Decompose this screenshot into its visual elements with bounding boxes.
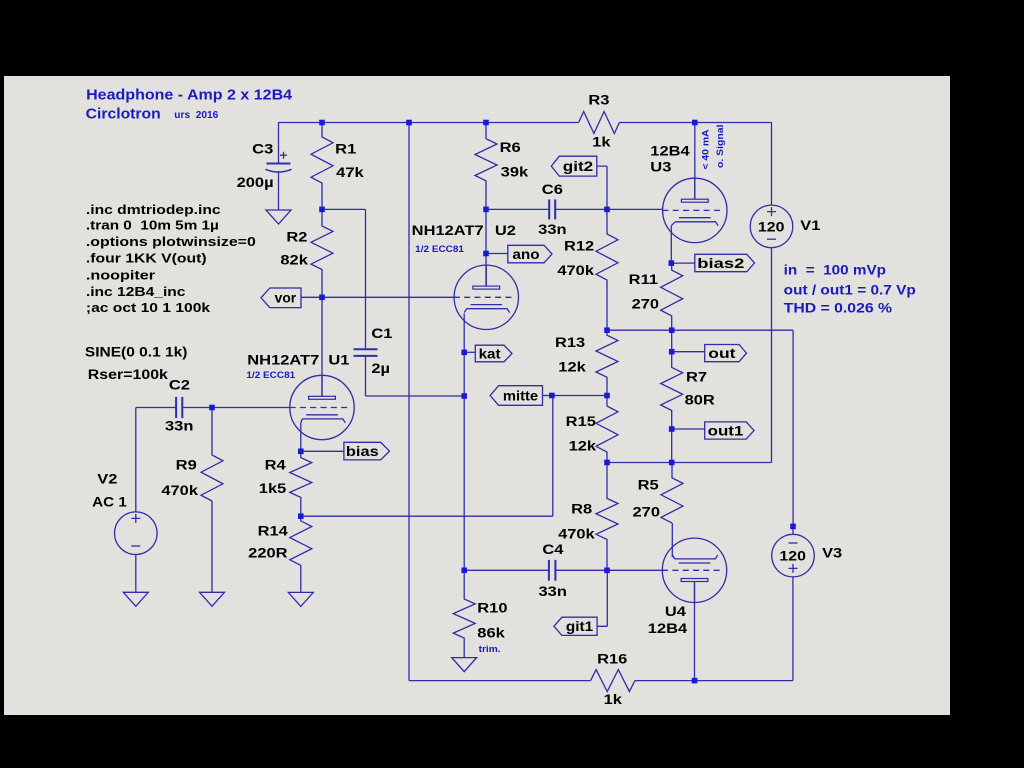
svg-text:V2: V2 bbox=[97, 472, 117, 487]
node V3 top bbox=[790, 524, 796, 530]
resistor R3 1k bbox=[579, 112, 620, 134]
svg-text:470k: 470k bbox=[558, 527, 595, 542]
svg-text:trim.: trim. bbox=[479, 644, 501, 655]
svg-text:1k: 1k bbox=[604, 692, 623, 707]
svg-text:NH12AT7: NH12AT7 bbox=[412, 223, 484, 238]
svg-text:out1: out1 bbox=[708, 423, 744, 438]
resistor R11 270 bbox=[661, 263, 683, 330]
svg-text:R5: R5 bbox=[638, 477, 660, 492]
ground under C3 bbox=[266, 210, 291, 224]
wire mitte link R4/R14 node bbox=[301, 396, 553, 517]
wire out flag stub bbox=[672, 351, 705, 353]
wire R9 bottom lead bbox=[211, 501, 213, 592]
wire U4 plate lead bottom bbox=[694, 582, 696, 681]
resistor R4 1k5 bbox=[290, 451, 312, 516]
node out bbox=[669, 349, 675, 355]
net flag bias2 bbox=[695, 254, 755, 271]
node U1 cathode/bias bbox=[298, 449, 304, 455]
node R5 top bbox=[669, 460, 675, 466]
wire C4 right lead bbox=[555, 569, 607, 571]
wire top rail left segment bbox=[279, 122, 579, 124]
node R6 top bbox=[483, 120, 489, 126]
net flag git2 bbox=[551, 156, 597, 176]
wire V2 bottom lead bbox=[135, 555, 137, 593]
svg-text:Circlotron: Circlotron bbox=[86, 106, 161, 122]
ground under V2 bbox=[123, 592, 148, 606]
node R2/vor/U1 plate/U2 grid bbox=[319, 295, 325, 301]
wire V3 top lead bbox=[792, 526, 794, 534]
svg-text:< 40 mA: < 40 mA bbox=[700, 129, 711, 169]
triode U4 12B4 (mirrored) bbox=[662, 538, 727, 602]
resistor R2 82k bbox=[311, 209, 333, 297]
wire U1 grid lead bbox=[212, 407, 290, 409]
svg-text:R11: R11 bbox=[629, 272, 659, 287]
node ano bbox=[483, 251, 489, 257]
svg-text:C3: C3 bbox=[252, 142, 274, 157]
svg-text:270: 270 bbox=[633, 505, 661, 520]
svg-text:U1: U1 bbox=[328, 352, 350, 367]
svg-text:C1: C1 bbox=[371, 326, 393, 341]
svg-text:C4: C4 bbox=[542, 542, 564, 557]
resistor R5 270 bbox=[661, 463, 683, 524]
triode U2 NH12AT7 bbox=[454, 265, 519, 329]
svg-text:in = 100 mVp: in = 100 mVp bbox=[784, 262, 886, 277]
wire top rail right segment to V1 bbox=[619, 123, 771, 206]
node R1/R2/C1 bbox=[319, 207, 325, 213]
svg-text:33n: 33n bbox=[539, 584, 567, 599]
svg-text:THD = 0.026 %: THD = 0.026 % bbox=[784, 301, 892, 316]
capacitor C4 33n bbox=[549, 560, 556, 581]
svg-text:R4: R4 bbox=[265, 458, 287, 473]
wire U3 grid lead bbox=[607, 208, 662, 210]
voltage source V3 120V (flipped) bbox=[772, 534, 815, 577]
svg-text:kat: kat bbox=[479, 346, 502, 361]
wire bias2 flag stub bbox=[671, 262, 695, 264]
wire kat vertical (U2 cathode to C4) bbox=[463, 314, 465, 571]
svg-text:1k5: 1k5 bbox=[259, 481, 287, 496]
wire C4 left lead bbox=[464, 569, 549, 571]
svg-text:.four 1KK V(out): .four 1KK V(out) bbox=[86, 251, 207, 266]
svg-text:o. Signal: o. Signal bbox=[715, 125, 726, 169]
svg-text:1/2 ECC81: 1/2 ECC81 bbox=[415, 244, 465, 255]
svg-text:C6: C6 bbox=[542, 182, 564, 197]
svg-text:V3: V3 bbox=[822, 546, 843, 561]
svg-text:R3: R3 bbox=[588, 93, 610, 108]
wire R5 to U4 cathode bbox=[671, 523, 673, 557]
node R11 bottom bbox=[669, 327, 675, 333]
svg-text:R10: R10 bbox=[477, 601, 507, 616]
svg-text:;ac oct 10 1 100k: ;ac oct 10 1 100k bbox=[86, 300, 211, 315]
svg-text:12B4: 12B4 bbox=[648, 621, 688, 636]
svg-text:2µ: 2µ bbox=[371, 361, 390, 376]
svg-text:.inc 12B4_inc: .inc 12B4_inc bbox=[86, 284, 186, 299]
svg-text:R9: R9 bbox=[176, 458, 197, 473]
svg-text:470k: 470k bbox=[557, 263, 594, 278]
svg-text:Rser=100k: Rser=100k bbox=[88, 367, 169, 382]
svg-text:R7: R7 bbox=[686, 370, 707, 385]
svg-text:out / out1 = 0.7 Vp: out / out1 = 0.7 Vp bbox=[784, 283, 916, 298]
svg-text:U4: U4 bbox=[665, 604, 687, 619]
svg-text:R13: R13 bbox=[555, 335, 586, 350]
node R4/R14/link bbox=[298, 513, 304, 519]
ground under R14 bbox=[288, 592, 313, 606]
wire bottom rail right segment to V3 bottom bbox=[635, 577, 793, 681]
svg-text:.options plotwinsize=0: .options plotwinsize=0 bbox=[86, 234, 256, 249]
wire C6 right lead bbox=[555, 208, 607, 210]
resistor R8 470k bbox=[596, 463, 618, 571]
resistor R15 12k bbox=[596, 396, 618, 463]
net flag mitte bbox=[490, 386, 542, 406]
svg-text:U3: U3 bbox=[650, 159, 672, 174]
svg-text:12B4: 12B4 bbox=[650, 143, 690, 158]
triode U3 12B4 bbox=[662, 178, 727, 242]
wire long vertical rail bbox=[408, 123, 410, 681]
svg-text:R16: R16 bbox=[597, 652, 628, 667]
svg-text:120: 120 bbox=[779, 549, 806, 564]
wire row R12/R13 to V3 top bbox=[607, 330, 793, 526]
spice directives block bbox=[86, 202, 256, 315]
svg-text:R2: R2 bbox=[286, 230, 307, 245]
svg-text:git1: git1 bbox=[566, 619, 594, 634]
wire U1 cathode lead bbox=[300, 423, 302, 452]
wire U4 grid lead bbox=[607, 569, 662, 571]
wire U2 plate lead bbox=[485, 209, 487, 285]
net flag kat bbox=[475, 345, 512, 362]
svg-text:bias: bias bbox=[346, 444, 379, 459]
wire R1-R2 junction to C1 top bbox=[322, 209, 366, 348]
svg-text:200µ: 200µ bbox=[237, 175, 274, 190]
wire vor flag to node bbox=[301, 296, 322, 298]
svg-text:1k: 1k bbox=[592, 135, 611, 150]
svg-text:R14: R14 bbox=[258, 523, 289, 538]
wire kat flag stub bbox=[464, 351, 475, 353]
wire out row to V1 bottom bbox=[607, 248, 772, 463]
wire node vor to U2 grid bbox=[322, 296, 454, 298]
wire C2 left lead and V2 top bbox=[136, 408, 176, 512]
capacitor C3 200u polarized bbox=[266, 152, 292, 210]
svg-text:R6: R6 bbox=[500, 140, 522, 155]
svg-text:V1: V1 bbox=[800, 218, 821, 233]
net flag out1 bbox=[705, 422, 754, 439]
voltage source V1 120V bbox=[750, 205, 793, 248]
resistor R1 47k bbox=[311, 123, 333, 210]
wire out1 flag stub bbox=[672, 428, 705, 430]
node kat/C4/R10 bbox=[461, 568, 467, 574]
svg-text:33n: 33n bbox=[165, 419, 193, 434]
wire git2 flag to node bbox=[597, 166, 607, 209]
node C6/git2/R12/U3 grid bbox=[604, 207, 610, 213]
svg-text:Headphone - Amp 2 x 12B4: Headphone - Amp 2 x 12B4 bbox=[86, 88, 292, 104]
node U3 cathode/bias2 bbox=[669, 260, 675, 266]
svg-text:R1: R1 bbox=[335, 142, 357, 157]
node kat bbox=[461, 350, 467, 356]
wire U3 plate lead top bbox=[694, 123, 696, 200]
net flag out bbox=[705, 345, 747, 362]
node C1-kat tee bbox=[461, 393, 467, 399]
node R15/R8/out-row bbox=[604, 460, 610, 466]
svg-text:.tran 0 10m 5m 1µ: .tran 0 10m 5m 1µ bbox=[86, 218, 219, 233]
net flag vor bbox=[261, 288, 301, 308]
svg-text:12k: 12k bbox=[558, 360, 586, 375]
resistor R16 1k bbox=[591, 670, 635, 692]
wire git1 flag to node bbox=[597, 570, 607, 626]
svg-text:C2: C2 bbox=[169, 378, 190, 393]
resistor R7 80R bbox=[661, 330, 683, 462]
svg-text:.noopiter: .noopiter bbox=[86, 267, 155, 282]
wire bias flag stub bbox=[301, 450, 344, 452]
wire C2 right lead bbox=[182, 407, 212, 409]
node U3 plate / R3 / V1 bbox=[692, 120, 698, 126]
svg-text:82k: 82k bbox=[280, 253, 308, 268]
node U4 plate/bottom rail bbox=[692, 678, 698, 684]
svg-text:urs 2016: urs 2016 bbox=[174, 109, 218, 121]
svg-text:R15: R15 bbox=[566, 414, 597, 429]
resistor R12 470k bbox=[596, 209, 618, 330]
net flag bias bbox=[344, 442, 390, 460]
triode U1 NH12AT7 bbox=[290, 375, 355, 439]
resistor R13 12k bbox=[596, 330, 618, 395]
svg-text:git2: git2 bbox=[563, 159, 593, 174]
wire U3 cathode lead bbox=[670, 226, 672, 263]
wire C3 top lead bbox=[278, 123, 280, 164]
node C4/git1/R8/U4 grid bbox=[604, 568, 610, 574]
node R12/R13/row bbox=[604, 327, 610, 333]
svg-text:bias2: bias2 bbox=[697, 256, 744, 271]
resistor R6 39k bbox=[475, 123, 497, 210]
node out1 bbox=[669, 426, 675, 432]
svg-text:.inc dmtriodep.inc: .inc dmtriodep.inc bbox=[86, 202, 221, 217]
svg-text:220R: 220R bbox=[248, 546, 288, 561]
voltage source V2 AC 1 bbox=[115, 512, 158, 555]
svg-text:mitte: mitte bbox=[503, 388, 539, 403]
svg-text:R12: R12 bbox=[564, 238, 594, 253]
net flag git1 bbox=[554, 617, 597, 635]
node R6/U2 plate/C6 bbox=[483, 207, 489, 213]
svg-text:U2: U2 bbox=[495, 223, 516, 238]
capacitor C2 33n bbox=[176, 397, 182, 418]
node vertical rail top bbox=[406, 120, 412, 126]
svg-text:R8: R8 bbox=[571, 502, 593, 517]
node mitte flag bbox=[549, 393, 555, 399]
svg-text:470k: 470k bbox=[161, 483, 198, 498]
svg-text:AC 1: AC 1 bbox=[92, 494, 127, 509]
svg-text:12k: 12k bbox=[569, 438, 597, 453]
ground under R9 bbox=[200, 592, 225, 606]
svg-text:33n: 33n bbox=[538, 222, 566, 237]
node C2/R9/U1 grid bbox=[209, 405, 215, 411]
svg-text:270: 270 bbox=[632, 297, 660, 312]
wire U1 plate lead bbox=[321, 297, 323, 396]
wire mitte node to R13/R15 bbox=[553, 395, 607, 397]
wire C1 bottom to kat node bbox=[366, 357, 465, 396]
svg-text:1/2 ECC81: 1/2 ECC81 bbox=[246, 370, 296, 381]
node R1 top bbox=[319, 120, 325, 126]
svg-text:86k: 86k bbox=[477, 625, 505, 640]
svg-text:ano: ano bbox=[512, 247, 539, 262]
svg-text:vor: vor bbox=[275, 291, 297, 306]
resistor R14 220R bbox=[290, 516, 312, 592]
ground under R10 bbox=[452, 658, 477, 672]
svg-text:39k: 39k bbox=[501, 165, 529, 180]
svg-text:NH12AT7: NH12AT7 bbox=[247, 352, 319, 367]
capacitor C1 2u bbox=[354, 349, 378, 356]
wire mitte flag stub bbox=[543, 395, 553, 397]
wire ano flag stub bbox=[486, 253, 508, 255]
capacitor C6 33n bbox=[549, 199, 555, 219]
node R13/R15/mitte bbox=[604, 393, 610, 399]
svg-text:80R: 80R bbox=[685, 393, 716, 408]
wire C6 left lead bbox=[486, 208, 549, 210]
svg-text:47k: 47k bbox=[336, 165, 364, 180]
svg-text:out: out bbox=[708, 346, 736, 361]
svg-text:120: 120 bbox=[758, 219, 785, 234]
resistor R9 470k bbox=[201, 408, 223, 502]
wire bottom rail left segment bbox=[409, 680, 591, 682]
svg-text:SINE(0 0.1 1k): SINE(0 0.1 1k) bbox=[85, 344, 187, 359]
resistor R10 86k bbox=[453, 570, 475, 657]
net flag ano bbox=[508, 245, 552, 262]
